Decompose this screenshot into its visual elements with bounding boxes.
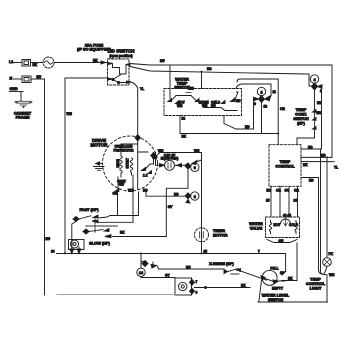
svg-text:BU: BU — [46, 237, 51, 241]
wire pump to water level switch — [195, 284, 251, 289]
wire branch down into water temp switch — [201, 72, 203, 89]
bottom bus 18 — [51, 250, 286, 254]
water temp switch feed wire — [169, 66, 171, 99]
wire BU to x-rinse — [158, 265, 225, 269]
svg-text:WH: WH — [329, 273, 335, 277]
svg-text:RD: RD — [321, 154, 326, 158]
svg-text:X-RINSE (SP): X-RINSE (SP) — [209, 261, 234, 266]
svg-text:BU: BU — [186, 265, 191, 269]
ground label — [14, 111, 32, 120]
wire right of diamond down — [321, 87, 323, 149]
wire temp control to right bus — [301, 154, 332, 158]
connector plug L1 — [22, 60, 31, 67]
centrifugal switch label — [117, 180, 126, 187]
timer contact 14 — [137, 254, 157, 277]
svg-text:8: 8 — [194, 195, 196, 199]
temp control light — [323, 258, 332, 267]
drive motor circle — [103, 136, 158, 191]
wire fast pivot down to bus — [72, 222, 76, 254]
svg-text:FAST (HP): FAST (HP) — [79, 207, 99, 212]
water temp switch label — [174, 77, 190, 90]
svg-text:GND: GND — [10, 87, 19, 91]
svg-text:MOTOR: MOTOR — [213, 232, 228, 237]
slow switch — [83, 229, 125, 238]
wire valve feed 2 OR — [276, 186, 281, 217]
wire left arm of 2 to WTS — [224, 100, 254, 129]
wire OR motor bottom left — [113, 191, 118, 216]
x-rinse switch — [224, 269, 241, 275]
svg-text:10: 10 — [280, 271, 284, 275]
svg-text:GN: GN — [279, 239, 284, 243]
svg-text:FRAME: FRAME — [16, 115, 30, 120]
water temp switch box — [164, 89, 242, 116]
WTS contact 2 — [176, 101, 184, 109]
svg-text:WH: WH — [194, 149, 200, 153]
WTS contact 1 — [168, 96, 191, 102]
svg-text:CONTROL: CONTROL — [275, 164, 295, 169]
svg-text:OR: OR — [280, 107, 285, 111]
timer motor — [195, 228, 209, 242]
svg-text:12: 12 — [264, 105, 268, 109]
svg-text:BK: BK — [303, 163, 308, 167]
motor start relay — [69, 240, 85, 250]
svg-text:WH: WH — [177, 104, 183, 108]
wire RD temp cont switch feed — [315, 90, 323, 109]
svg-text:BK: BK — [182, 135, 187, 139]
wire center of 2 down — [261, 103, 263, 134]
wire timer motor top — [201, 161, 203, 254]
svg-text:7: 7 — [258, 250, 260, 254]
svg-text:25: 25 — [266, 199, 270, 203]
wire bus down to contact 10 — [280, 254, 286, 276]
wire temp cont switch to temp control — [297, 133, 315, 145]
svg-text:4: 4 — [313, 78, 316, 82]
svg-text:L1: L1 — [9, 60, 13, 64]
svg-text:BK: BK — [241, 284, 246, 288]
svg-text:RD: RD — [143, 189, 148, 193]
svg-text:(SP): (SP) — [297, 120, 305, 125]
svg-text:RD: RD — [207, 67, 212, 71]
wire slow pivot dashes — [86, 225, 118, 227]
wire WH motor to cap bus — [153, 149, 202, 160]
wire to cabinet ground — [20, 92, 22, 101]
wire BK long horizontal to temp control — [180, 116, 278, 139]
motor top terminal — [135, 135, 140, 141]
svg-text:WH: WH — [67, 112, 73, 116]
svg-text:OR: OR — [113, 192, 118, 196]
wire temp control light feed — [327, 157, 334, 257]
svg-text:18: 18 — [51, 250, 55, 254]
svg-text:N: N — [10, 77, 13, 81]
wire GY 14 to pump — [141, 274, 175, 278]
wire fuse to lid switch BK — [54, 59, 108, 65]
svg-text:BR: BR — [317, 111, 322, 115]
WTS contact 7 — [231, 92, 242, 103]
svg-text:SWITCH: SWITCH — [268, 297, 284, 302]
svg-text:14: 14 — [139, 271, 144, 275]
wire valve feed 4 OR — [294, 186, 300, 217]
lid switch box — [108, 59, 130, 85]
motor right terminal — [151, 153, 156, 165]
motor winding main — [116, 156, 122, 177]
cap right lead — [175, 164, 186, 167]
svg-text:6: 6 — [194, 166, 196, 170]
temp cont switch label — [293, 107, 309, 125]
valve coil hot — [269, 221, 280, 234]
svg-text:RD: RD — [174, 193, 179, 197]
svg-text:SW: SW — [119, 183, 124, 187]
svg-text:PROTECTOR: PROTECTOR — [114, 148, 135, 152]
svg-text:11: 11 — [273, 90, 277, 94]
wire BK connector to fuse — [31, 63, 44, 68]
motor internal top wire — [121, 141, 148, 190]
svg-text:OR: OR — [294, 189, 299, 193]
svg-text:VALVE: VALVE — [250, 226, 263, 231]
fuse label — [77, 43, 112, 52]
svg-text:15: 15 — [204, 250, 208, 254]
svg-text:LIGHT: LIGHT — [310, 286, 322, 291]
svg-text:YL: YL — [334, 165, 338, 169]
wire WH lid switch left leg — [65, 78, 108, 253]
motor ground — [94, 162, 105, 170]
svg-text:RD: RD — [308, 145, 313, 149]
cap left lead — [156, 153, 165, 168]
ground cabinet frame — [14, 101, 32, 108]
drive motor label — [90, 138, 108, 148]
motor right contacts — [142, 164, 154, 178]
svg-text:BK: BK — [120, 231, 125, 235]
fuse F1 15A — [43, 57, 54, 68]
water level switch — [261, 270, 284, 290]
svg-text:COLD: COLD — [211, 100, 221, 104]
valve coil cold — [289, 221, 299, 234]
bus arrows — [70, 247, 81, 254]
svg-text:PK: PK — [329, 252, 334, 256]
bottom bus right — [258, 301, 328, 303]
lid switch upper pole — [108, 63, 131, 75]
wire BU top bus lid switch to right edge — [130, 59, 332, 65]
overload protector label — [114, 145, 135, 153]
wire motor to fast switch lower — [98, 192, 133, 222]
switch linkage dashed — [94, 219, 96, 233]
svg-text:GY: GY — [168, 205, 173, 209]
svg-text:MOTOR: MOTOR — [90, 143, 108, 148]
wire upper right horizontal — [237, 79, 278, 145]
timer motor label — [213, 228, 228, 237]
wire GN valve common — [267, 239, 297, 243]
svg-text:MAIN: MAIN — [116, 159, 120, 168]
timer contact 2 — [257, 87, 265, 95]
timer contact 8 — [185, 192, 199, 203]
wire 6 to slow speed line — [113, 170, 188, 237]
svg-text:GY: GY — [165, 274, 170, 278]
svg-text:BK: BK — [33, 63, 38, 67]
wire YL temp control out — [301, 162, 338, 170]
wire motor loop to fast switch top — [98, 192, 139, 218]
pump motor box — [175, 278, 192, 295]
wire RD motor to 8 — [143, 189, 185, 197]
svg-text:(open position): (open position) — [109, 54, 132, 58]
svg-text:START: START — [126, 158, 130, 168]
svg-text:SLOW (HP): SLOW (HP) — [89, 241, 110, 246]
wire BK water level contact — [279, 280, 286, 282]
pump terminals — [190, 280, 198, 295]
svg-text:9: 9 — [254, 102, 256, 106]
wire RD down right — [321, 149, 324, 274]
svg-text:WH: WH — [158, 149, 164, 153]
svg-text:EMPTY: EMPTY — [272, 286, 284, 290]
svg-text:HOT: HOT — [274, 223, 281, 227]
WTS contact 6 — [221, 101, 237, 111]
temp control label — [275, 159, 295, 169]
node diamond under 4 — [312, 83, 323, 93]
node GND — [10, 87, 24, 92]
svg-text:HOT: HOT — [178, 100, 185, 104]
svg-text:6: 6 — [196, 291, 198, 295]
motor winding start — [126, 158, 133, 175]
lid switch lower pole — [108, 74, 132, 84]
svg-text:(IF SO EQUIPPED): (IF SO EQUIPPED) — [77, 47, 112, 52]
svg-text:RD: RD — [245, 125, 250, 129]
valve center symbol — [281, 214, 292, 227]
wire RD lid switch to temp cont switch — [130, 67, 311, 87]
temp cont switch contacts — [313, 108, 322, 133]
svg-text:LID SWITCH: LID SWITCH — [108, 49, 135, 54]
svg-text:BU: BU — [37, 75, 42, 79]
svg-text:BU: BU — [160, 59, 165, 63]
temp control box — [269, 145, 301, 187]
timer contact 4 — [310, 75, 318, 83]
svg-text:12: 12 — [182, 117, 186, 121]
svg-text:BU: BU — [267, 189, 272, 193]
svg-text:2: 2 — [260, 90, 262, 94]
svg-text:WARM: WARM — [199, 100, 209, 104]
node N — [10, 77, 13, 81]
lid switch S1 label — [108, 49, 135, 58]
wire RD temp control right out — [301, 145, 321, 149]
svg-text:RD: RD — [309, 179, 314, 183]
wire L1 to connector — [14, 62, 23, 64]
node L1 — [9, 60, 13, 64]
wire valve to water level switch BK — [282, 243, 298, 281]
WTS extra terminal marks — [178, 93, 221, 108]
svg-text:1 2: 1 2 — [143, 174, 148, 178]
temp control light label — [306, 277, 326, 291]
svg-text:43 42: 43 42 — [283, 214, 291, 218]
lamp bottom lead — [324, 266, 336, 302]
wire water level switch to bottom bus — [259, 280, 262, 302]
svg-text:OR: OR — [276, 189, 281, 193]
wire YL lid switch to drive motor — [131, 82, 144, 136]
wire x-rinse to water level switch — [241, 271, 267, 280]
wire BU from N down left side — [31, 75, 51, 295]
capacitor C1 — [165, 160, 175, 170]
timer contact 6 — [185, 163, 199, 172]
capacitor label — [161, 153, 179, 160]
wire right edge top bus down — [331, 65, 333, 157]
svg-text:FULL: FULL — [270, 266, 278, 270]
WTS terminal top right loop — [236, 84, 276, 100]
svg-text:7: 7 — [196, 280, 198, 284]
WTS contact 5 — [211, 101, 216, 109]
WTS contact 3 — [191, 96, 199, 102]
wire valve feed 1 BU — [266, 186, 272, 217]
svg-text:WH: WH — [202, 104, 208, 108]
wire feed to 6 from WH bus — [192, 153, 202, 165]
fast switch — [73, 215, 98, 223]
wire valve feed 3 GY — [285, 186, 290, 217]
svg-text:BK: BK — [93, 59, 98, 63]
svg-text:BK: BK — [288, 277, 293, 281]
water level switch label — [262, 292, 290, 302]
svg-text:RD: RD — [236, 99, 241, 103]
wire N to connector — [14, 78, 23, 80]
water valve label — [249, 221, 263, 230]
wire lower right temp control out — [301, 178, 322, 275]
motor bottom contacts — [115, 175, 133, 192]
svg-text:YL: YL — [140, 87, 144, 91]
svg-text:24: 24 — [294, 199, 298, 203]
water valve box — [266, 217, 300, 238]
connector plug N — [22, 76, 31, 83]
node diamond under 2 — [254, 96, 270, 109]
WTS contact 4 — [202, 101, 221, 109]
wire GN bottom left — [57, 294, 175, 296]
